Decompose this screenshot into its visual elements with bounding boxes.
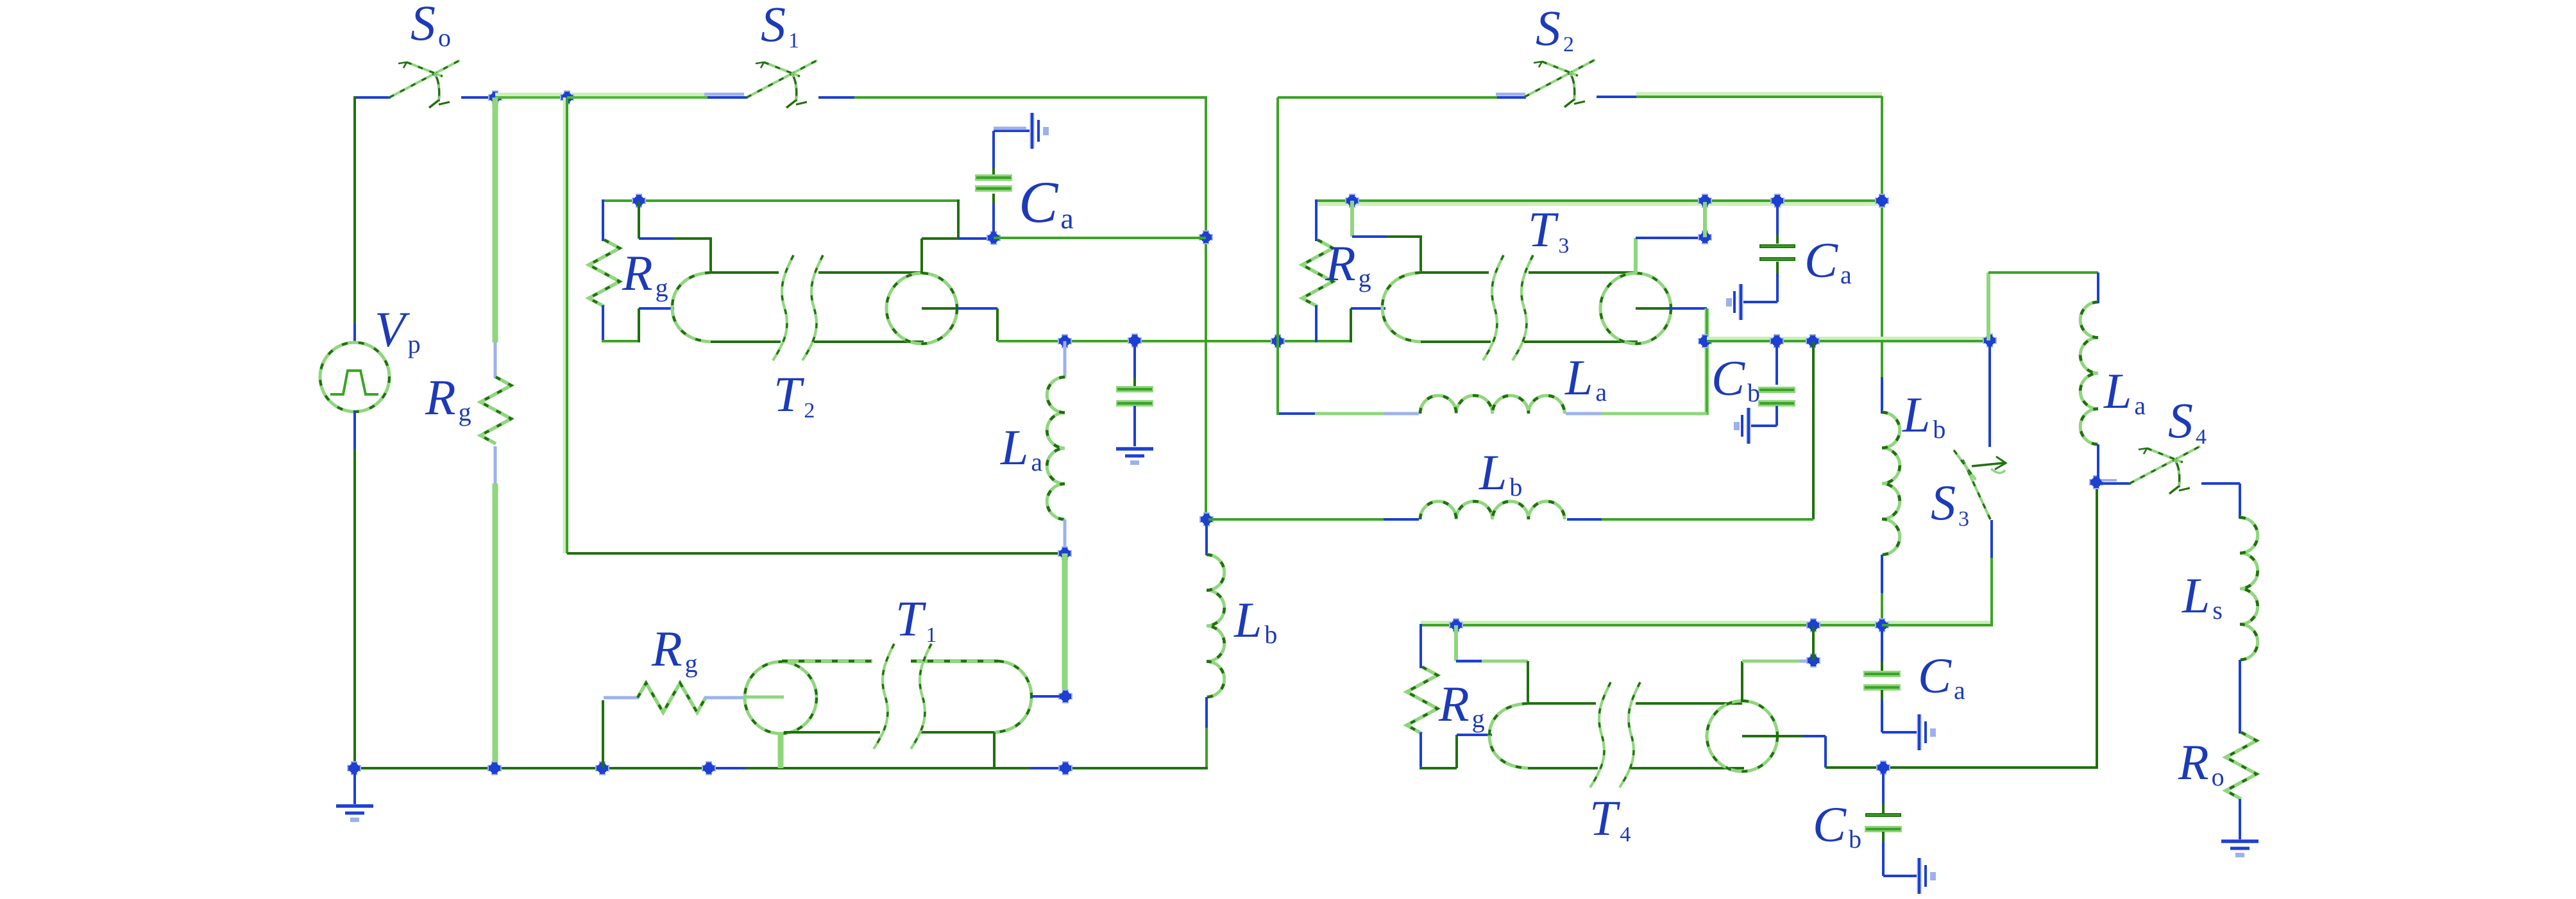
wire bottom ground rail xyxy=(355,767,1208,769)
wire T4 circle-top riser xyxy=(1742,661,1810,702)
node junction (1105,1198) xyxy=(702,761,716,775)
wire Lb1 bottom lead xyxy=(1205,697,1208,768)
label L_a (right) xyxy=(2103,363,2146,420)
label C_b (T4 stage) xyxy=(1813,796,1861,853)
wire vertical x=772 lower xyxy=(494,446,497,768)
transformer T2 coax capsule (left end) xyxy=(672,273,781,342)
wire T2 circle-top riser xyxy=(922,239,958,274)
label T_2 xyxy=(774,366,815,423)
switch S_3 xyxy=(1954,450,2006,519)
wire R_g T2 left leg lower xyxy=(602,305,604,342)
wire T4 loop top rail y=975 xyxy=(1421,624,1992,626)
node junction top-2 (x=884) xyxy=(560,90,574,105)
node junction (2658,370) xyxy=(1698,230,1712,244)
ground (output) xyxy=(2221,841,2258,857)
wire R_g T1 left stub xyxy=(604,696,639,700)
capacitor C_a (T2 stage) xyxy=(975,174,1012,192)
node junction top-1 (x=772) xyxy=(488,90,502,105)
node junction (2770,532) xyxy=(1770,334,1784,348)
wire L_s to R_o xyxy=(2239,660,2241,734)
wire C_a3 upper lead xyxy=(1881,625,1883,671)
transformer T3 coax circle (right end) xyxy=(1600,273,1671,344)
wire La1 bottom lead xyxy=(1063,519,1067,553)
wire T3 shield stub xyxy=(1352,201,1422,274)
transformer T2 coax circle (right end) xyxy=(886,273,957,344)
label T_4 xyxy=(1589,790,1631,846)
wire C_a1 lower lead xyxy=(992,194,995,238)
wire La3 bottom lead xyxy=(2097,444,2099,483)
wire T2 shield stub xyxy=(639,201,712,274)
wire T4 R_g bottom piece xyxy=(1419,767,1457,769)
wire T2 center conductor xyxy=(922,308,997,341)
label L_a (T2 output) xyxy=(1000,419,1042,476)
node junction (3102,531) xyxy=(1983,333,1997,348)
node junction T1 output (1661,1086) xyxy=(1058,689,1072,703)
wire La1 top lead xyxy=(1063,341,1067,378)
switch S_4 xyxy=(2130,446,2200,494)
node junction (939,1198) xyxy=(595,761,609,775)
node junction (2936,1197) xyxy=(1876,760,1890,775)
label L_b (x=2934) xyxy=(1902,387,1945,444)
label R_g (T3) xyxy=(1325,235,1371,292)
ground (C_a2) xyxy=(1726,284,1741,320)
label L_b (horizontal) xyxy=(1479,444,1522,501)
inductor L_a (T2 output, x=1660) xyxy=(1047,377,1065,519)
wire between junctions x=2658 xyxy=(1703,202,1707,237)
transformer T3 coax capsule (left end) xyxy=(1382,273,1491,342)
node junction (1660,863) xyxy=(1058,546,1072,560)
wire top rail junction to junction xyxy=(495,96,567,99)
ground (C_b2) xyxy=(1919,858,1936,894)
transformer T3 break marks xyxy=(1483,255,1533,360)
wire top rail (pale highlight) xyxy=(495,93,706,97)
wire T3 capsule lines after break xyxy=(1524,273,1638,342)
label S_3 xyxy=(1931,475,1969,531)
node junction (2827,975) xyxy=(1806,618,1820,632)
wire C_b2 lower lead xyxy=(1883,832,1917,876)
wire T3 loop top rail y=313 (pale) xyxy=(1316,202,1882,206)
label S_4 xyxy=(2168,392,2207,449)
label S_1 xyxy=(761,0,799,53)
wire junction line y=532 right (pale) xyxy=(1707,337,1990,340)
wire C_a3 lower lead xyxy=(1882,690,1917,732)
wire main ground stem xyxy=(353,768,356,805)
node junction (1661,1198) xyxy=(1058,761,1072,775)
wire T3 circle-top riser xyxy=(1636,238,1705,274)
capacitor C_a (T4 stage) xyxy=(1863,671,1901,691)
transformer T2 break marks xyxy=(773,255,823,360)
label R_g (T2) xyxy=(622,245,668,302)
wire vertical x=1992 below junction xyxy=(1276,341,1279,415)
wire R_g T2 left leg upper xyxy=(602,199,604,241)
resistor R_g (pulse-side, x=773) xyxy=(480,377,511,444)
wire y=371 line to x=1880 xyxy=(994,237,1206,239)
node junction (2826,532) xyxy=(1806,334,1820,348)
wire T2 riser to line tip xyxy=(639,308,674,342)
wire T4 rail (pale) xyxy=(1421,621,1992,625)
inductor L_b (x=2934) xyxy=(1882,412,1900,555)
wire T2 rail corner down xyxy=(958,199,995,239)
wire S_3 bottom horizontal xyxy=(1882,624,1992,626)
wire S_o to junction xyxy=(461,96,495,99)
wire y=810 line right part xyxy=(1567,518,1813,521)
wire R_g T4 left leg upper xyxy=(1419,624,1422,668)
wire S_2 to corner x=2934 xyxy=(1597,96,1882,98)
node junction (2934,975) xyxy=(1875,618,1889,632)
node junction (3268,752) xyxy=(2089,475,2103,489)
node junction (2270,975) xyxy=(1449,618,1463,632)
wire top rail left segment (blue) xyxy=(355,96,391,99)
wire T4 capsule lines after break xyxy=(1631,703,1744,768)
label S_o xyxy=(411,0,451,52)
ground (main, below V_p) xyxy=(336,806,373,822)
wire T1 center conductor to junction xyxy=(1031,695,1063,698)
switch S_o xyxy=(389,60,460,108)
label R_o xyxy=(2178,734,2224,791)
wire La3 loop xyxy=(1988,273,2098,340)
node junction (1992,532) xyxy=(1271,334,1285,348)
wire R_g T3 left leg upper xyxy=(1315,199,1318,241)
label C_a (T3 stage) xyxy=(1804,232,1852,289)
wire S_3 bottom lead xyxy=(1990,520,1993,626)
node junction (771,1198) xyxy=(487,761,502,775)
transformer T4 coax circle (right end) xyxy=(1707,701,1777,771)
node junction (1880,370) xyxy=(1199,230,1213,244)
wire Lb1 top lead xyxy=(1205,519,1208,555)
label R_g (T1) xyxy=(651,621,698,678)
wire shunt cap bottom lead xyxy=(1133,406,1136,446)
ground (shunt cap) xyxy=(1116,449,1153,465)
capacitor C_b (T4 stage) xyxy=(1865,815,1902,832)
label C_a (T2 stage) xyxy=(1019,169,1074,235)
wire R_o to ground xyxy=(2239,799,2241,840)
node junction (1660,532) xyxy=(1058,334,1072,348)
resistor R_o xyxy=(2226,732,2257,799)
wire T1 circle bottom stub xyxy=(778,732,784,768)
wire T4 shield stub xyxy=(1456,625,1528,705)
wire S_3 top lead xyxy=(1988,340,1991,447)
wire vertical x=2827 (y=532 to y=810) xyxy=(1812,341,1815,519)
inductor L_a (T3 return, y=645) xyxy=(1420,396,1564,414)
transformer T4 coax capsule (left end) xyxy=(1489,703,1598,768)
wire C_b1 lower lead xyxy=(1751,406,1777,426)
label R_g (pulse side) xyxy=(425,369,471,426)
wire T3 loop top rail y=313 xyxy=(1316,199,1882,202)
wire vertical x=2934 S2-descent + Lb2 feed xyxy=(1881,96,1883,414)
transformer T1 coax circle (left end) xyxy=(745,662,817,734)
wire S_2 output (pale) xyxy=(1636,92,1882,97)
wire C_a2 lower lead xyxy=(1743,262,1777,302)
wire T3 riser to line tip xyxy=(1351,308,1385,342)
wire S_4 to L_s xyxy=(2201,483,2240,519)
capacitor (shunt at x=1769) xyxy=(1116,386,1153,407)
wire x=1660 down to T1 xyxy=(1062,553,1068,696)
wire horizontal y=863 to La bottom xyxy=(567,552,1062,555)
node junction (2771,313) xyxy=(1770,194,1784,208)
resistor R_g (T1, horizontal) xyxy=(638,683,706,712)
node junction (2108,313) xyxy=(1345,194,1359,208)
wire C_a2 upper lead xyxy=(1776,201,1779,244)
wire shunt cap top lead xyxy=(1133,340,1136,386)
transformer T1 coax capsule (right end) xyxy=(782,661,1031,732)
capacitor C_b (T3 stage) xyxy=(1758,387,1795,407)
wire T2 loop top rail y=313 xyxy=(603,199,958,202)
wire C_a1 upper lead to ground xyxy=(994,128,1030,174)
wire S_1 to corner x=1878 xyxy=(818,96,1206,99)
wire R_g T1 left leg xyxy=(602,700,604,768)
wire T1 capsule riser to rail xyxy=(993,732,996,768)
wire Lb2 bottom lead xyxy=(1881,555,1883,626)
resistor R_g (T3 input, x=2054) xyxy=(1302,240,1333,307)
inductor L_s xyxy=(2240,517,2258,660)
resistor R_g (T4 input, x=2217) xyxy=(1407,667,1437,734)
wire left vertical to Vp xyxy=(353,96,356,344)
node junction (1769,531) xyxy=(1128,333,1142,348)
wire C_b1 upper lead xyxy=(1775,341,1778,385)
label L_b (x=1881) xyxy=(1233,592,1277,649)
node junction ground rail left xyxy=(347,761,361,775)
wire T3 center conductor xyxy=(1636,307,1707,310)
label L_s xyxy=(2182,567,2223,625)
wire T4 riser to line tip xyxy=(1457,735,1492,768)
node junction (2827,1030) xyxy=(1806,653,1820,668)
wire y=1197 line xyxy=(1826,766,2097,769)
ground (C_a1) xyxy=(1032,113,1049,149)
wire y=810 line left part xyxy=(1208,518,1419,521)
transformer T1 break marks xyxy=(874,644,931,749)
ground (C_b1) xyxy=(1734,408,1749,444)
label C_b (T3 stage) xyxy=(1711,350,1760,407)
wire C_b2 upper lead xyxy=(1882,768,1885,814)
wire top rail 2 to S2 xyxy=(1278,94,1526,97)
switch S_1 xyxy=(747,60,817,108)
label R_g (T4) xyxy=(1438,676,1485,733)
label C_a (T4 stage) xyxy=(1918,648,1965,705)
node junction (996,313) xyxy=(632,194,646,208)
inductor L_b (x=1881) xyxy=(1207,555,1224,697)
wire T2 capsule lines after break xyxy=(814,273,924,342)
wire R_g T4 left leg lower xyxy=(1419,732,1422,769)
label L_a (T3 return) xyxy=(1564,349,1607,407)
wire vertical x=1992 rail feed xyxy=(1276,97,1279,341)
wire junction to S_4 xyxy=(2101,480,2131,483)
wire Vp to ground rail xyxy=(353,410,356,768)
wire R_g T1 right stub xyxy=(704,696,747,700)
wire T3 return to x=1992 xyxy=(1278,412,1419,416)
wire vertical x=772 upper (light green) xyxy=(493,97,498,378)
inductor L_b (horizontal, y=810) xyxy=(1420,501,1564,519)
capacitor C_a (T3 stage) xyxy=(1759,246,1795,259)
wire x=2827 short vertical xyxy=(1812,626,1815,660)
label T_3 xyxy=(1528,201,1569,258)
label S_2 xyxy=(1536,0,1574,56)
switch S_2 xyxy=(1525,60,1595,107)
node junction (1881,810) xyxy=(1199,512,1214,526)
wire vertical x=884 down to y=863 xyxy=(564,97,567,553)
wire vertical x=1880 down (crosses y=532) xyxy=(1205,96,1207,519)
wire junction line y=532 (T2 to T3) xyxy=(997,340,1351,342)
wire T3 return vertical x=2661 xyxy=(1705,308,1709,415)
wire T2 R_g bottom piece xyxy=(602,340,639,342)
node junction (2658,313) xyxy=(1698,194,1712,208)
wire R_g T3 left leg lower xyxy=(1315,305,1318,342)
transformer T4 break marks xyxy=(1590,682,1640,787)
source V_p (pulse source) xyxy=(320,342,389,412)
wire vertical x=3269 up xyxy=(2096,482,2098,769)
node junction C_a1 (1549,371) xyxy=(987,231,1001,245)
label V_p xyxy=(375,301,421,358)
wire T4 center conductor xyxy=(1742,736,1826,768)
inductor L_a (right, x=3271) xyxy=(2080,302,2098,444)
wire T3 return horizontal y=645 xyxy=(1566,412,1707,416)
label T_1 xyxy=(895,591,936,647)
node junction (2934,313) xyxy=(1875,194,1889,208)
wire junction line y=532 right part xyxy=(1707,340,1990,342)
ground (C_a3) xyxy=(1919,714,1936,750)
node junction (2658,532) xyxy=(1698,334,1712,348)
resistor R_g (T2 input, x=942) xyxy=(589,240,620,307)
wire top rail to S1 xyxy=(567,94,748,97)
